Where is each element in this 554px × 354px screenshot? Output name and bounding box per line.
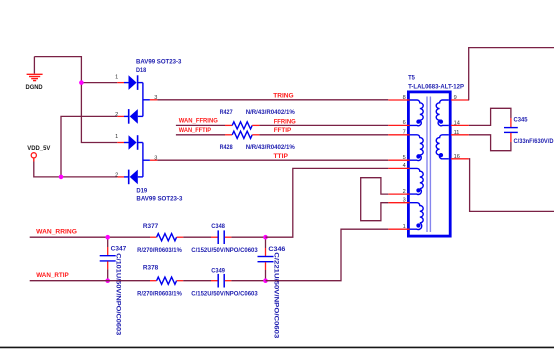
winding T5 pins 4-2 — [410, 168, 424, 194]
D18 common cathode bar wire — [142, 83, 144, 117]
svg-text:N/R/43/R0402/1%: N/R/43/R0402/1% — [246, 109, 296, 116]
wire TTIP D19.3 to T5.5 — [157, 159, 388, 161]
svg-text:WAN_RTIP: WAN_RTIP — [36, 272, 69, 279]
svg-text:VDD_5V: VDD_5V — [27, 145, 51, 152]
wire T5.9 to top right — [468, 48, 554, 100]
svg-text:C/152U/50V/NPO/C0603: C/152U/50V/NPO/C0603 — [191, 291, 258, 298]
wire FFTIP to T5.7 — [259, 134, 388, 136]
winding T5 pins 3-1 — [410, 203, 424, 230]
svg-text:11: 11 — [454, 130, 460, 136]
svg-text:C349: C349 — [211, 268, 225, 275]
diode D18 top (pin1-pin3) — [117, 82, 124, 84]
resistor R378 — [157, 277, 177, 284]
wire junction to T5.4 — [266, 168, 389, 237]
diode D18 bottom (pin2-pin3) — [117, 115, 124, 117]
D19 pin3 stub — [143, 159, 150, 161]
winding T5 pins 7-5 — [410, 135, 424, 161]
wire DGND to diodes — [34, 57, 117, 143]
D19 common cathode bar wire — [142, 143, 144, 177]
svg-text:D19: D19 — [136, 188, 147, 195]
svg-text:C347: C347 — [111, 245, 127, 252]
svg-text:16: 16 — [454, 154, 460, 160]
junction RTIP/C346 — [263, 278, 268, 283]
wire junction to T5.1 — [266, 229, 389, 281]
svg-text:R377: R377 — [143, 223, 159, 230]
svg-text:C345: C345 — [514, 116, 529, 123]
diode D19 top (pin1-pin3) — [117, 142, 124, 144]
svg-text:C/221U/50V/NPO/C0603: C/221U/50V/NPO/C0603 — [273, 252, 280, 339]
svg-text:8: 8 — [403, 95, 406, 101]
svg-text:5: 5 — [403, 155, 406, 161]
svg-text:7: 7 — [403, 130, 406, 136]
D18 pin3 stub — [143, 99, 150, 101]
svg-text:N/R/43/R0402/1%: N/R/43/R0402/1% — [246, 144, 296, 151]
T5 left pin stubs — [388, 99, 409, 101]
resistor R427 — [232, 122, 252, 129]
svg-text:3: 3 — [403, 198, 406, 204]
svg-text:C/152U/50V/NPO/C0603: C/152U/50V/NPO/C0603 — [191, 247, 258, 254]
svg-text:4: 4 — [403, 163, 406, 169]
capacitor C345 — [504, 127, 518, 129]
svg-text:3: 3 — [154, 155, 157, 161]
wire WAN_FFRING — [176, 124, 225, 126]
frame border bottom — [0, 346, 554, 348]
junction DGND net — [79, 80, 84, 85]
wire R378 to C349 — [183, 280, 211, 282]
svg-text:2: 2 — [115, 172, 118, 178]
svg-text:T5: T5 — [408, 75, 415, 82]
svg-text:C348: C348 — [211, 223, 225, 230]
svg-text:1: 1 — [115, 74, 118, 80]
svg-text:1: 1 — [403, 224, 406, 230]
svg-text:DGND: DGND — [26, 84, 44, 91]
wire T5.16 to right — [469, 159, 554, 212]
svg-text:2: 2 — [115, 112, 118, 118]
svg-text:BAV99 SOT23-3: BAV99 SOT23-3 — [136, 195, 183, 202]
ground DGND — [33, 57, 35, 74]
transformer core lines — [426, 97, 428, 233]
svg-text:2: 2 — [403, 189, 406, 195]
svg-text:C/101U/50V/NPO/C0603: C/101U/50V/NPO/C0603 — [115, 253, 122, 336]
svg-text:6: 6 — [403, 120, 406, 126]
capacitor C346 — [265, 239, 267, 248]
capacitor C348 — [217, 230, 219, 244]
svg-text:D18: D18 — [136, 67, 147, 74]
wire R377 to C348 — [183, 236, 211, 238]
svg-text:WAN_RRING: WAN_RRING — [36, 228, 77, 235]
svg-text:3: 3 — [154, 95, 157, 101]
resistor R377 — [157, 234, 177, 241]
svg-text:R/270/R0603/1%: R/270/R0603/1% — [137, 291, 182, 298]
svg-text:14: 14 — [454, 120, 460, 126]
svg-text:TTIP: TTIP — [274, 153, 289, 160]
junction C347 bottom — [105, 278, 110, 283]
svg-text:R428: R428 — [220, 144, 233, 151]
winding T5 pins 9-14 — [436, 100, 449, 126]
svg-text:WAN_FFTIP: WAN_FFTIP — [179, 127, 212, 134]
svg-text:TRING: TRING — [273, 92, 294, 99]
capacitor C347 — [107, 237, 109, 247]
junction RRING/C346 — [263, 235, 268, 240]
wire TRING D18.3 to T5.8 — [157, 99, 388, 101]
svg-text:1: 1 — [115, 134, 118, 140]
svg-text:9: 9 — [454, 95, 457, 101]
wire to D18 pin2 — [61, 116, 117, 176]
svg-text:R427: R427 — [220, 109, 233, 116]
T5 right pin stubs — [451, 99, 469, 101]
wire C345 to T5.11 — [510, 133, 512, 142]
winding T5 pins 8-6 — [410, 100, 424, 126]
wire junction to D18 pin1 — [81, 82, 117, 84]
wire T5.14 to C345 — [469, 108, 511, 125]
svg-text:FFTIP: FFTIP — [274, 127, 292, 134]
transformer T5 body — [408, 92, 450, 236]
diode D19 bottom (pin2-pin3) — [117, 176, 124, 178]
svg-text:T-LAL0683-ALT-12P: T-LAL0683-ALT-12P — [408, 84, 464, 91]
wire WAN_FFTIP — [176, 134, 225, 136]
winding T5 pins 11-16 — [436, 135, 449, 159]
junction VDD net — [59, 175, 64, 180]
svg-text:R/270/R0603/1%: R/270/R0603/1% — [137, 247, 182, 254]
wire WAN_RTIP — [30, 280, 150, 282]
svg-text:BAV99 SOT23-3: BAV99 SOT23-3 — [136, 59, 182, 66]
wire C348 to junction — [225, 236, 232, 238]
junction C347 top — [105, 235, 110, 240]
svg-text:C/33nF/630V/D: C/33nF/630V/D — [514, 138, 554, 145]
wire C349 to junction — [225, 280, 232, 282]
capacitor C349 — [217, 274, 219, 288]
wire VDD_5V to diodes — [34, 162, 118, 177]
svg-text:WAN_FFRING: WAN_FFRING — [179, 118, 218, 125]
resistor R428 — [232, 131, 252, 138]
svg-text:R378: R378 — [143, 265, 159, 272]
svg-text:FFRING: FFRING — [274, 118, 296, 125]
wire loop T5 pin2 to pin3 — [361, 178, 389, 221]
wire FFRING to T5.6 — [259, 124, 388, 126]
wire WAN_RRING — [30, 236, 150, 238]
